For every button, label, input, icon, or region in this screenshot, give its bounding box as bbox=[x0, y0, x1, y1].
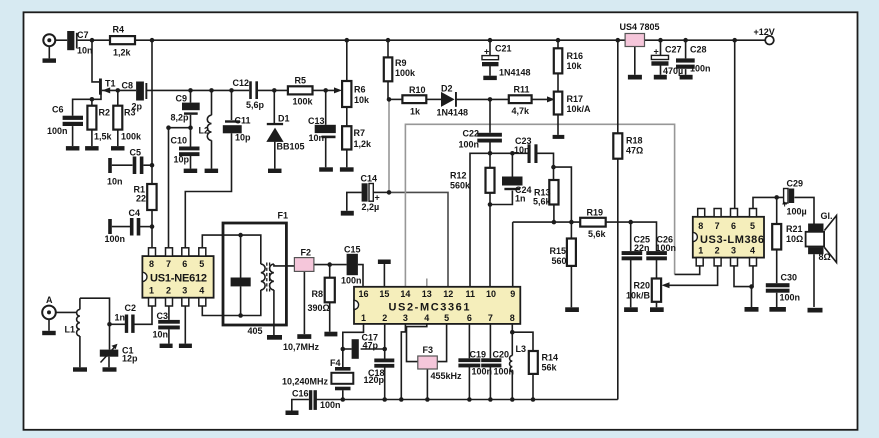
wire C1 branches bbox=[109, 324, 111, 349]
wire R6 to R7 bbox=[346, 107, 348, 126]
node L3/R14 top bbox=[510, 330, 515, 335]
svg-text:A: A bbox=[46, 295, 53, 305]
inductor L2 bbox=[207, 115, 211, 140]
ground (connector A) bbox=[42, 331, 56, 335]
pin stubs US1 top bbox=[149, 248, 156, 256]
wire R12 top bbox=[489, 153, 491, 168]
wire D1 branch bbox=[273, 90, 275, 123]
node R9/R10 bbox=[387, 97, 392, 102]
svg-text:100k: 100k bbox=[395, 68, 416, 78]
svg-text:R15: R15 bbox=[550, 246, 567, 256]
capacitor C9 bbox=[182, 103, 200, 111]
wire F1 secondary out to F2 bbox=[274, 264, 295, 266]
diode D2 bbox=[441, 92, 455, 107]
wire grey net R9/R10 node down to C14 bbox=[388, 99, 390, 192]
ground (C14) bbox=[341, 211, 354, 216]
node bus C20 bbox=[488, 397, 493, 402]
resistor R12 bbox=[486, 168, 495, 193]
svg-text:C27: C27 bbox=[665, 45, 682, 55]
ground (US4) bbox=[628, 75, 642, 80]
wire C27 branch bbox=[660, 40, 662, 55]
node rail C21 bbox=[488, 38, 493, 43]
svg-text:C21: C21 bbox=[495, 44, 512, 54]
resistor R2 bbox=[87, 106, 96, 130]
transformer core bbox=[266, 263, 268, 292]
svg-text:R5: R5 bbox=[295, 76, 307, 86]
US2 pin 13 stub (n.c.) bbox=[426, 279, 428, 287]
svg-text:10: 10 bbox=[486, 289, 496, 299]
svg-text:R19: R19 bbox=[587, 208, 604, 218]
resistor R16 bbox=[554, 48, 563, 73]
node bus C19 bbox=[467, 397, 472, 402]
ground (R2) bbox=[85, 146, 99, 150]
svg-text:R20: R20 bbox=[634, 281, 651, 291]
svg-text:+: + bbox=[375, 193, 380, 203]
wire supply rail top bbox=[55, 39, 67, 41]
wire R10 to D2 bbox=[426, 98, 441, 100]
resistor R3 bbox=[113, 106, 122, 130]
svg-text:2,2µ: 2,2µ bbox=[362, 202, 380, 212]
wire C18 branch bbox=[384, 349, 386, 359]
capacitor C24 bbox=[502, 177, 523, 186]
capacitor C8 bbox=[136, 82, 144, 101]
wire C22 node to US1... US2 pin 11 bbox=[470, 153, 490, 286]
wire R19 net left to US2 pin 9 bbox=[513, 221, 581, 223]
svg-text:C11: C11 bbox=[235, 116, 251, 126]
wire US2 pin7 to C20 bbox=[489, 324, 491, 358]
svg-text:5: 5 bbox=[750, 221, 755, 231]
svg-text:4: 4 bbox=[750, 246, 755, 256]
svg-text:L2: L2 bbox=[199, 126, 210, 136]
pin stubs US3 bottom bbox=[696, 258, 703, 266]
wire L2 branch bbox=[211, 90, 213, 115]
svg-text:R14: R14 bbox=[542, 353, 559, 363]
svg-text:4,7k: 4,7k bbox=[512, 106, 531, 116]
wire L1 bottom to ground bbox=[79, 336, 81, 367]
transformer inside F1 secondary bbox=[270, 264, 274, 290]
svg-text:2: 2 bbox=[715, 246, 720, 256]
node rail US3 pin6 bbox=[732, 38, 737, 43]
svg-text:560: 560 bbox=[552, 256, 567, 266]
svg-text:C6: C6 bbox=[52, 105, 64, 115]
svg-text:US2-MC3361: US2-MC3361 bbox=[389, 302, 470, 314]
svg-text:5,6k: 5,6k bbox=[588, 229, 607, 239]
resistor R1 bbox=[147, 184, 156, 210]
node C13 top bbox=[323, 88, 328, 93]
inductor L3 bbox=[510, 356, 513, 372]
capacitor C1 (trimmer) bbox=[100, 350, 119, 357]
node C5 tap bbox=[150, 163, 155, 168]
node R15 top bbox=[569, 220, 574, 225]
ground (C25) bbox=[624, 307, 638, 312]
wire F1 secondary bottom to ground bbox=[273, 290, 275, 335]
svg-text:C8: C8 bbox=[122, 81, 134, 91]
svg-text:10p: 10p bbox=[235, 133, 251, 143]
capacitor C20 bbox=[481, 358, 501, 362]
resistor R8 bbox=[325, 278, 335, 303]
svg-text:4: 4 bbox=[424, 313, 429, 323]
svg-text:1N4148: 1N4148 bbox=[499, 68, 531, 78]
node rail C28 bbox=[683, 38, 688, 43]
node R19 right / C25 bbox=[628, 220, 633, 225]
wire grey net C14 to US2 pin 12 bbox=[389, 192, 448, 286]
resistor R15 bbox=[567, 239, 576, 266]
wire speaker to ground bbox=[813, 254, 815, 307]
node rail R16 bbox=[556, 38, 561, 43]
node C17 right bbox=[382, 347, 387, 352]
ground (C3) bbox=[160, 344, 173, 348]
svg-text:1,2k: 1,2k bbox=[354, 139, 373, 149]
wire R6 top to rail bbox=[346, 40, 348, 81]
node bus L3 bbox=[510, 397, 515, 402]
wire US1 pin4 into F1 bottom bbox=[202, 290, 260, 316]
node C7/R4/T1 bbox=[90, 38, 95, 43]
capacitor C17 bbox=[352, 339, 359, 359]
wire grey net US2 pin 14 up over to US3 pin 1 bbox=[405, 124, 674, 286]
wire US4 7805 ground lead bbox=[634, 46, 636, 75]
capacitor C2 bbox=[125, 315, 128, 333]
wire C24 top bbox=[511, 153, 513, 176]
node F1 bottom internal bbox=[238, 313, 243, 318]
wire C8 to tank circuit bbox=[147, 89, 249, 91]
wire US2 pin15 T-stub bbox=[383, 264, 385, 287]
wire C22 node to C23 bbox=[490, 152, 528, 154]
svg-text:10n: 10n bbox=[514, 145, 530, 155]
node rail R18 bbox=[616, 38, 621, 43]
wire C12 right to R5 bbox=[258, 89, 288, 91]
ground (connector top) bbox=[43, 58, 57, 62]
ground (C27) bbox=[654, 75, 667, 80]
svg-text:8Ω: 8Ω bbox=[819, 252, 831, 262]
ground (D1) bbox=[268, 169, 282, 173]
wire C22 branch bbox=[489, 99, 491, 132]
wire C6 to ground bbox=[72, 126, 74, 146]
wire US3 pin3+4 to ground bbox=[734, 266, 753, 287]
node T1 source bbox=[90, 97, 95, 102]
svg-text:R10: R10 bbox=[409, 85, 426, 95]
wire US2 pin6 to C19 bbox=[468, 324, 470, 358]
node C29 left / R21 bbox=[774, 195, 779, 200]
wire R13 node to R15 drop bbox=[554, 167, 572, 238]
wire R21 branch bbox=[776, 197, 778, 224]
resistor R4 bbox=[110, 36, 135, 44]
svg-text:5: 5 bbox=[444, 313, 449, 323]
svg-text:F4: F4 bbox=[330, 358, 341, 368]
svg-text:5,6k: 5,6k bbox=[533, 197, 552, 207]
crystal F4 bbox=[335, 367, 351, 371]
svg-text:7: 7 bbox=[166, 259, 171, 269]
svg-text:C7: C7 bbox=[77, 30, 89, 40]
node F1 top internal bbox=[238, 233, 243, 238]
svg-text:47p: 47p bbox=[363, 341, 379, 351]
wire US2 ground/supply bus bbox=[316, 399, 618, 401]
wire US2 pin4 to F3 bbox=[407, 324, 427, 362]
svg-text:1,5k: 1,5k bbox=[94, 132, 113, 142]
svg-text:10k: 10k bbox=[567, 61, 583, 71]
svg-text:560k: 560k bbox=[450, 181, 471, 191]
diode D1 varicap BB105 bbox=[267, 123, 283, 125]
ground (L2) bbox=[205, 169, 219, 173]
svg-text:R7: R7 bbox=[354, 128, 366, 138]
svg-text:10n: 10n bbox=[309, 133, 325, 143]
wire C25 branch bbox=[630, 222, 632, 251]
svg-text:T1: T1 bbox=[105, 79, 116, 89]
svg-text:R4: R4 bbox=[113, 25, 125, 35]
ground (C28) bbox=[680, 75, 693, 80]
capacitor C25 bbox=[622, 251, 643, 255]
wire C5 tap bbox=[112, 164, 133, 166]
ground (speaker) bbox=[808, 308, 823, 313]
node R13 top bbox=[551, 165, 556, 170]
svg-text:100n: 100n bbox=[105, 234, 126, 244]
svg-text:R6: R6 bbox=[354, 85, 366, 95]
wire R18 top from rail bbox=[617, 40, 619, 133]
capacitor C26 bbox=[646, 251, 667, 255]
resistor R10 bbox=[402, 95, 426, 103]
capacitor C18 bbox=[374, 359, 394, 363]
node R13 bottom bbox=[552, 220, 557, 225]
input connector A (bottom) bbox=[42, 306, 56, 320]
wire C2 to US1 pin 1 bbox=[135, 306, 153, 324]
svg-text:10,7MHz: 10,7MHz bbox=[283, 342, 320, 352]
ground (R17) bbox=[553, 135, 565, 139]
wire antenna A to L1 tap bbox=[56, 311, 77, 313]
ground (R7) bbox=[340, 167, 354, 171]
resistor R19 bbox=[580, 218, 606, 227]
ground (US1 pin3) bbox=[179, 344, 192, 348]
svg-text:455kHz: 455kHz bbox=[431, 371, 463, 381]
resistor R18 bbox=[613, 133, 622, 158]
ground (C30) bbox=[769, 307, 786, 312]
ground (C13) bbox=[319, 167, 333, 171]
wire T1 source node bbox=[92, 95, 101, 100]
svg-text:10n: 10n bbox=[77, 46, 93, 56]
transformer inside F1 primary bbox=[261, 264, 265, 290]
pin stubs US3 top bbox=[698, 209, 705, 217]
wire R7 to ground bbox=[346, 150, 348, 168]
svg-text:12: 12 bbox=[443, 289, 453, 299]
svg-text:1: 1 bbox=[361, 313, 366, 323]
wire US2 pin1 to C17 node bbox=[343, 324, 364, 349]
wire C9/C10 node to US1 pin7 bbox=[169, 128, 191, 248]
svg-text:L3: L3 bbox=[516, 344, 527, 354]
svg-text:US1-NE612: US1-NE612 bbox=[150, 273, 207, 285]
svg-text:C3: C3 bbox=[157, 311, 169, 321]
svg-text:1k: 1k bbox=[410, 107, 421, 117]
svg-text:F2: F2 bbox=[301, 248, 312, 258]
node C9 top bbox=[188, 88, 193, 93]
svg-text:3: 3 bbox=[182, 286, 187, 296]
svg-text:4: 4 bbox=[199, 286, 204, 296]
svg-text:C28: C28 bbox=[690, 45, 707, 55]
svg-text:1: 1 bbox=[149, 286, 154, 296]
wire C15 to US2 pin16 bbox=[358, 265, 363, 287]
svg-text:R21: R21 bbox=[786, 224, 803, 234]
svg-text:C19: C19 bbox=[470, 350, 487, 360]
svg-text:100n: 100n bbox=[780, 293, 801, 303]
svg-text:Gl.: Gl. bbox=[821, 211, 833, 221]
capacitor C10 bbox=[179, 147, 200, 151]
wire US3 pin2 to R20 wiper arrow bbox=[665, 266, 718, 285]
wire F1 internal cap branch bbox=[240, 235, 242, 277]
wire C4 tap bbox=[112, 226, 130, 228]
svg-text:2: 2 bbox=[382, 313, 387, 323]
svg-text:C14: C14 bbox=[361, 174, 378, 184]
wire C14 left lead to ground bbox=[347, 192, 362, 210]
svg-text:R8: R8 bbox=[312, 289, 324, 299]
svg-text:C9: C9 bbox=[176, 94, 188, 104]
arrow into R20 bbox=[662, 282, 670, 288]
wire F2 ground lead bbox=[303, 271, 305, 334]
wire R18 bottom down to US2 bus bbox=[617, 159, 619, 400]
node bus F3 bbox=[425, 397, 430, 402]
wire T1 drain drop bbox=[92, 40, 99, 82]
svg-text:F3: F3 bbox=[423, 345, 434, 355]
resistor R11 bbox=[509, 95, 532, 103]
svg-text:R11: R11 bbox=[514, 85, 530, 95]
svg-text:7: 7 bbox=[715, 221, 720, 231]
op-amp US2 MC3361 body bbox=[354, 287, 520, 324]
node rail R9 bbox=[386, 38, 391, 43]
svg-text:405: 405 bbox=[248, 326, 263, 336]
regulator US4 7805 bbox=[625, 34, 644, 47]
capacitor C5 with terminal bar bbox=[108, 158, 112, 173]
svg-text:14: 14 bbox=[400, 289, 410, 299]
node rail R6 bbox=[345, 38, 350, 43]
svg-text:2: 2 bbox=[166, 286, 171, 296]
svg-text:F1: F1 bbox=[278, 211, 289, 221]
svg-text:13: 13 bbox=[422, 289, 432, 299]
svg-text:10,240MHz: 10,240MHz bbox=[282, 377, 329, 387]
T-bar stub on US2 pin15 bbox=[378, 260, 391, 265]
wire C26 to R20 bbox=[656, 260, 658, 279]
wire R4 node vertical x=152 bbox=[151, 40, 153, 184]
svg-text:100n: 100n bbox=[656, 243, 677, 253]
svg-text:C10: C10 bbox=[171, 136, 188, 146]
wire C29 to speaker bbox=[794, 197, 814, 223]
svg-text:10n: 10n bbox=[153, 330, 169, 340]
svg-text:8: 8 bbox=[149, 259, 154, 269]
svg-text:R18: R18 bbox=[626, 136, 643, 146]
svg-text:470µ: 470µ bbox=[663, 66, 683, 76]
svg-text:9: 9 bbox=[510, 289, 515, 299]
wire R13 bottom to R19 line bbox=[553, 205, 555, 223]
node C22 bottom bbox=[488, 151, 493, 156]
svg-text:56k: 56k bbox=[542, 363, 558, 373]
capacitor C23 bbox=[528, 144, 531, 163]
svg-text:10Ω: 10Ω bbox=[786, 234, 803, 244]
ground (L1) bbox=[73, 367, 87, 371]
resistor R20 (pot) bbox=[652, 279, 661, 302]
capacitor C3 bbox=[158, 320, 180, 324]
wire C10 branch bbox=[190, 128, 192, 147]
svg-text:100n: 100n bbox=[341, 276, 362, 286]
svg-text:C20: C20 bbox=[493, 350, 510, 360]
capacitor inside F1 bbox=[231, 278, 251, 287]
wire C13 branch bbox=[325, 90, 327, 124]
input connector (top) bbox=[43, 34, 55, 46]
node D1 top bbox=[272, 88, 277, 93]
wire F4 branch bbox=[342, 349, 344, 367]
ground (C1) bbox=[103, 367, 117, 371]
capacitor C21 (electrolytic) bbox=[482, 56, 499, 60]
wire input connector to C7 bbox=[48, 46, 50, 58]
node bus C18 bbox=[382, 397, 387, 402]
ground (F2) bbox=[297, 334, 311, 339]
svg-text:100k: 100k bbox=[121, 132, 142, 142]
svg-text:+12V: +12V bbox=[754, 27, 775, 37]
svg-text:6: 6 bbox=[182, 259, 187, 269]
svg-text:US4 7805: US4 7805 bbox=[620, 22, 660, 32]
resistor R14 bbox=[529, 351, 538, 374]
capacitor C14 (electrolytic) bbox=[362, 183, 368, 201]
svg-text:100n: 100n bbox=[459, 140, 480, 150]
svg-text:US3-LM386: US3-LM386 bbox=[700, 234, 764, 246]
resistor R17 (pot) bbox=[554, 92, 563, 115]
wire R3 branches bbox=[117, 90, 119, 105]
svg-text:3: 3 bbox=[731, 246, 736, 256]
wire R12 bottom to C24 bbox=[490, 191, 512, 205]
svg-text:R16: R16 bbox=[567, 51, 584, 61]
svg-text:C16: C16 bbox=[292, 389, 309, 399]
capacitor C16 bbox=[309, 390, 312, 410]
wire R16 top to rail bbox=[557, 40, 559, 48]
resistor R5 bbox=[288, 86, 313, 94]
capacitor C30 bbox=[766, 283, 790, 287]
svg-text:16: 16 bbox=[359, 289, 369, 299]
resistor R9 bbox=[384, 57, 393, 81]
svg-text:1N4148: 1N4148 bbox=[437, 108, 469, 118]
wire C30 to ground bbox=[776, 293, 778, 307]
capacitor C19 bbox=[458, 358, 480, 362]
svg-text:D2: D2 bbox=[441, 84, 453, 94]
wire R9 bottom to R10 bbox=[387, 81, 389, 99]
svg-text:R12: R12 bbox=[450, 171, 467, 181]
wire D2 to R11 bbox=[456, 98, 509, 100]
wire US3 pin5 to C29 bbox=[753, 197, 783, 208]
node rail C27 bbox=[658, 38, 663, 43]
svg-text:22n: 22n bbox=[634, 243, 650, 253]
op-amp US3 LM386 body bbox=[693, 217, 764, 258]
wire US3 pin1 to grey net bbox=[675, 266, 700, 274]
wire C23 to R16/R17 column bbox=[538, 153, 554, 180]
node C17 left bbox=[341, 347, 346, 352]
transistor T1 bbox=[99, 79, 102, 95]
capacitor C28 bbox=[676, 58, 695, 62]
terminal +12V bbox=[765, 36, 774, 45]
wire C11 branch bbox=[231, 90, 233, 120]
svg-text:11: 11 bbox=[466, 289, 476, 299]
svg-text:100n: 100n bbox=[494, 367, 515, 377]
wire C17 left lead bbox=[343, 348, 352, 350]
svg-text:BB105: BB105 bbox=[277, 142, 305, 152]
node bus R14 bbox=[531, 397, 536, 402]
wire L1 top to C2/C1 node bbox=[80, 298, 110, 324]
resistor R7 bbox=[342, 126, 351, 149]
node R12 bottom bbox=[488, 202, 493, 207]
wire F2 out to C15 bbox=[314, 264, 347, 266]
wire R17 bottom down to R13 bbox=[557, 115, 559, 135]
node T1 gate / R3 bbox=[116, 88, 121, 93]
svg-text:6: 6 bbox=[731, 221, 736, 231]
svg-text:5,6p: 5,6p bbox=[246, 100, 265, 110]
svg-text:L1: L1 bbox=[65, 325, 76, 335]
svg-text:7: 7 bbox=[488, 313, 493, 323]
svg-text:10k/B: 10k/B bbox=[626, 291, 651, 301]
svg-text:10k: 10k bbox=[354, 95, 370, 105]
svg-text:C5: C5 bbox=[130, 148, 142, 158]
resistor R13 bbox=[549, 180, 558, 205]
